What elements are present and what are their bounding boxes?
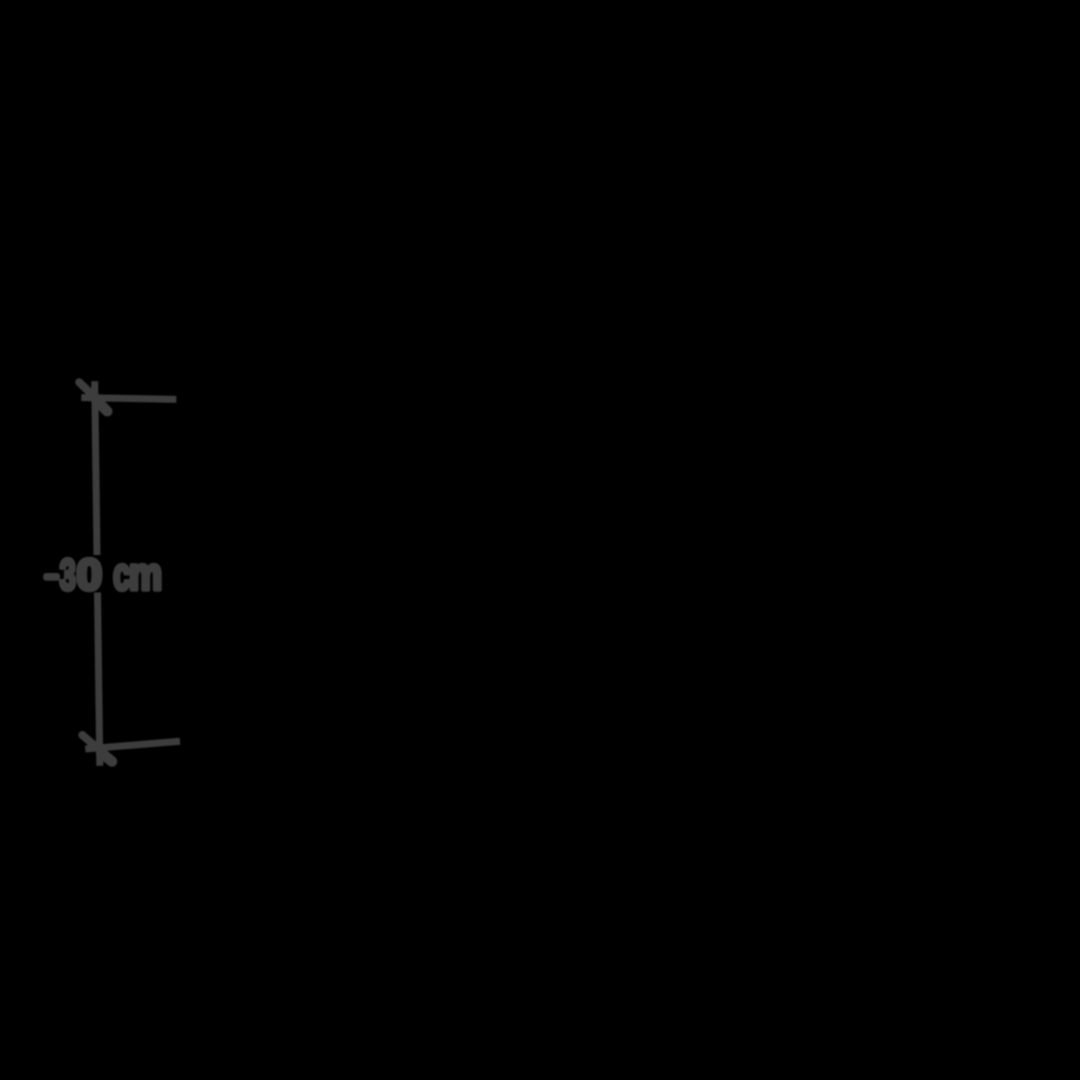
bottom extension line bbox=[85, 741, 180, 749]
svg-text:3: 3 bbox=[60, 552, 76, 600]
minus sign of label bbox=[43, 573, 60, 581]
label -30 cm bbox=[43, 549, 162, 600]
wire: vertical dimension line upper segment bbox=[95, 381, 97, 555]
top tick (oblique slash) bbox=[79, 382, 95, 397]
svg-text:c: c bbox=[113, 549, 130, 600]
bottom tick (oblique slash) bbox=[82, 735, 98, 749]
svg-text:m: m bbox=[129, 549, 162, 600]
wire: vertical dimension line lower segment bbox=[98, 593, 100, 766]
svg-text:0: 0 bbox=[77, 552, 102, 600]
top extension line bbox=[81, 398, 176, 400]
